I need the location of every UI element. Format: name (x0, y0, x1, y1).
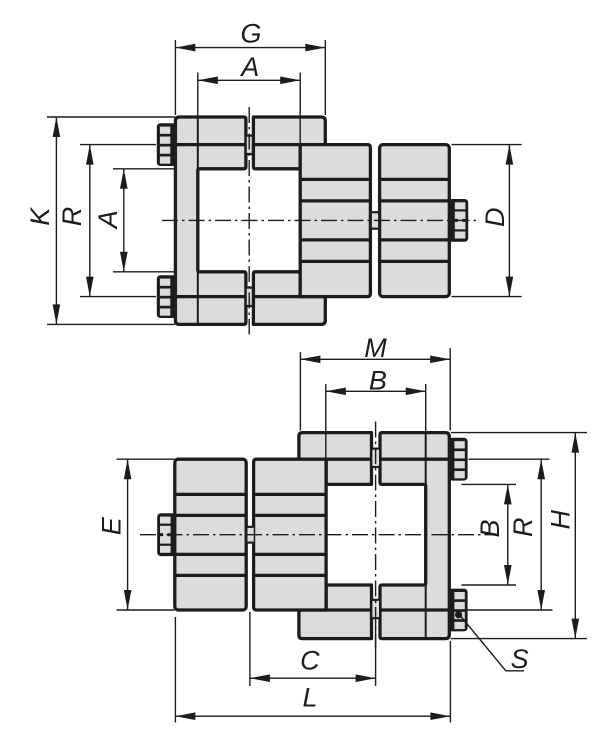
svg-text:M: M (364, 333, 387, 363)
svg-text:R: R (508, 517, 538, 537)
dimension C (249, 612, 251, 686)
screw head upper-left (top view) (157, 123, 177, 166)
screw head lower-right (bottom view) (449, 589, 468, 632)
column edge through lower flange (bottom view) (425, 585, 427, 638)
column edge through lower flange (197, 272, 199, 324)
horizontal centerline (top view) (162, 219, 477, 221)
dimension R (bottom view) (469, 458, 550, 460)
clamp 1 left half (front view) (175, 117, 246, 324)
clamp 2 inner flange block (side view) (300, 145, 370, 297)
clamp 1 right plate lower part (253, 272, 325, 325)
flange split line lower-right (380, 608, 449, 611)
svg-text:H: H (545, 510, 575, 530)
svg-text:B: B (369, 366, 387, 396)
screw shank in split (upper) (247, 135, 253, 154)
vertical centerline (top view) (248, 107, 250, 335)
flange split line upper-left (175, 143, 246, 146)
dimension R (top view) (80, 144, 156, 146)
clamp 1 flange edge lines (side view) (175, 493, 246, 496)
flange split line upper-right plate (253, 143, 300, 146)
dimension A (height) (113, 168, 175, 170)
svg-text:L: L (302, 682, 317, 712)
svg-text:C: C (300, 645, 320, 675)
dimension B (width) (325, 384, 327, 483)
column edge through upper flange (197, 118, 199, 169)
svg-text:A: A (93, 210, 123, 230)
svg-text:S: S (511, 644, 529, 674)
clamp 1 right plate upper part (253, 117, 325, 169)
dimension K (47, 116, 175, 118)
flange split line upper-right (380, 458, 449, 461)
screw head upper-right (bottom view) (449, 438, 468, 481)
clamp 2 left plate upper part (299, 433, 372, 485)
clamp 1 outer block (side view) (175, 459, 246, 610)
flange split line upper-left plate (bottom view) (326, 458, 371, 461)
flange split line lower-left plate (bottom view) (326, 608, 371, 611)
vertical centerline (bottom view) (375, 422, 377, 649)
nut / screw end right (top view) (449, 199, 469, 242)
horizontal centerline (bottom view) (140, 534, 494, 536)
screw shank in split (lower, bottom view) (372, 599, 379, 618)
clamp 2 screw shank between blocks (372, 212, 378, 229)
screw shank in split (lower) (247, 287, 253, 306)
clamp 2 left plate lower part (299, 585, 372, 639)
svg-text:D: D (480, 208, 510, 228)
clamp 2 outer block (side view) (380, 145, 450, 297)
dimension A (width) (197, 73, 199, 117)
dimension B (height) (462, 483, 517, 485)
dimension H (451, 432, 587, 434)
svg-text:B: B (475, 519, 505, 537)
column edge through upper flange (bottom view) (425, 434, 427, 485)
dimension G (174, 40, 176, 115)
flange split line lower-right plate (253, 295, 300, 298)
clamp 1 screw shank between blocks (248, 527, 254, 543)
flange split line lower-left (175, 295, 246, 298)
svg-text:E: E (96, 516, 126, 535)
dimension D (452, 144, 522, 146)
screw head lower-left (top view) (157, 275, 177, 318)
screw shank in split (upper, bottom view) (372, 448, 379, 467)
svg-text:K: K (25, 207, 55, 226)
screw end left (bottom view) (157, 513, 176, 556)
dimension M (299, 352, 301, 431)
leader S (screw callout) (461, 617, 524, 671)
svg-text:G: G (240, 18, 261, 48)
clamp 2 right half (front view) (380, 433, 449, 639)
clamp 1 inner flange block (side view) (254, 459, 327, 610)
dimension L (174, 617, 176, 723)
clamp 2 flange edge lines (side view) (300, 178, 370, 181)
svg-text:R: R (57, 207, 87, 227)
svg-text:A: A (239, 52, 259, 82)
dimension E (117, 458, 175, 460)
